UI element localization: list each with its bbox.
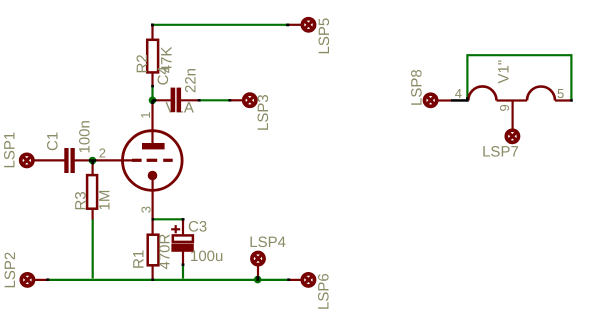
svg-text:C3: C3	[188, 219, 207, 236]
svg-text:LSP2: LSP2	[2, 252, 19, 289]
svg-text:LSP1: LSP1	[2, 132, 19, 169]
svg-text:2: 2	[99, 146, 106, 161]
svg-text:C4: C4	[155, 66, 172, 85]
svg-text:22n: 22n	[183, 68, 200, 93]
svg-text:R3: R3	[73, 191, 90, 210]
svg-text:100n: 100n	[77, 120, 94, 153]
svg-text:100u: 100u	[190, 248, 223, 265]
svg-text:V1": V1"	[496, 60, 513, 84]
svg-text:3: 3	[138, 206, 153, 213]
svg-text:C1: C1	[45, 132, 62, 151]
svg-text:LSP4: LSP4	[249, 234, 286, 251]
svg-text:R1: R1	[131, 250, 148, 269]
svg-text:1: 1	[138, 111, 153, 118]
svg-text:LSP5: LSP5	[316, 18, 333, 55]
svg-text:LSP7: LSP7	[482, 144, 519, 161]
svg-text:9: 9	[497, 104, 512, 111]
svg-text:LSP6: LSP6	[316, 273, 333, 310]
svg-text:LSP8: LSP8	[409, 69, 426, 106]
svg-text:470R: 470R	[157, 233, 174, 269]
svg-text:LSP3: LSP3	[255, 94, 272, 131]
svg-text:4: 4	[455, 86, 462, 101]
svg-text:5: 5	[557, 86, 564, 101]
svg-text:1M: 1M	[97, 190, 114, 211]
svg-text:R2: R2	[134, 54, 151, 73]
